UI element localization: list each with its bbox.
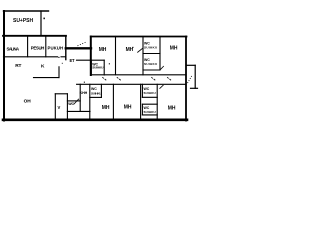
wall divider MH2 wc-stack <box>142 37 144 75</box>
svg-text:MH: MH <box>99 47 107 53</box>
svg-text:SUIHKU: SUIHKU <box>91 91 102 95</box>
door swing corridor exit <box>188 76 193 84</box>
wall sauna row bottom <box>4 56 58 58</box>
wall wc-stack2 top box left <box>141 84 143 97</box>
wall right outer <box>185 37 187 121</box>
wall entrance thick <box>66 47 91 49</box>
wall sauna row bottom stub <box>61 56 66 58</box>
wall porch tick lower <box>191 87 198 89</box>
wall wc-stack2 lower box left <box>141 104 143 115</box>
node post dot <box>43 18 45 20</box>
wall wc-stack2 top box bottom <box>142 96 157 98</box>
svg-text:RT: RT <box>15 63 21 69</box>
wall entrance recess vertical <box>65 36 67 60</box>
wall divider wc-stack MH3 <box>159 37 161 71</box>
wall porch tick upper <box>187 64 195 66</box>
wall V WC divider <box>66 94 68 120</box>
door swing corridor c <box>151 77 156 81</box>
wall corridor bottom <box>77 83 186 85</box>
wall KHH left <box>79 84 81 111</box>
wall wc box left <box>90 60 92 75</box>
svg-text:ET: ET <box>70 58 76 63</box>
wall wc box right <box>103 60 105 75</box>
svg-text:SAUNA: SAUNA <box>7 47 20 52</box>
wall wc-stack2 lower box bottom <box>142 114 157 116</box>
door swing wc-stack box2 <box>160 66 164 70</box>
door swing wc-stack <box>137 48 143 53</box>
svg-text:OH: OH <box>24 98 32 104</box>
wall bottom outer <box>3 119 187 122</box>
wall V box left <box>54 94 56 120</box>
wall annex right edge <box>40 11 42 36</box>
wall wc box4 bottom <box>90 96 102 98</box>
wall wc-stack2 lower box top <box>142 103 157 105</box>
door swing WC cluster <box>74 99 79 104</box>
node door dot kitchen <box>58 57 59 58</box>
wall WC box top <box>67 100 80 102</box>
svg-text:MH: MH <box>124 104 132 110</box>
wall divider KHH MH4 <box>89 84 91 120</box>
wall porch rail vertical <box>194 65 196 88</box>
node dot ET <box>62 63 63 64</box>
svg-text:MH: MH <box>170 45 178 51</box>
door swing corridor d <box>167 77 172 81</box>
svg-text:V: V <box>58 105 61 110</box>
svg-text:MH: MH <box>168 105 176 111</box>
door swing entrance <box>78 42 87 46</box>
svg-text:PESUH: PESUH <box>31 46 45 51</box>
wall top outer right section <box>91 36 187 38</box>
wall divider MH4 MH5 <box>112 84 114 120</box>
wall corridor top <box>91 74 186 76</box>
svg-text:SUIHKU: SUIHKU <box>144 62 158 66</box>
node dot MH1 door <box>109 63 110 64</box>
node dot corridor KHH door <box>84 82 85 83</box>
svg-text:SU+PSH: SU+PSH <box>13 18 33 24</box>
svg-text:MH: MH <box>126 47 134 53</box>
svg-text:PUKUH: PUKUH <box>48 46 64 51</box>
wall left outer <box>3 11 5 121</box>
wall kitchen counter vertical <box>58 67 60 78</box>
door swing corridor b <box>117 77 122 81</box>
wall top outer left section <box>3 35 66 37</box>
wall ET bottom and wc box top <box>77 59 105 61</box>
wall wc box4 right <box>100 84 102 97</box>
wall divider wc-stack2 MH6 <box>156 84 158 120</box>
wall V box top <box>55 93 67 95</box>
wall divider pesuh pukuh <box>45 36 47 57</box>
wall wc-stack top box bottom <box>143 53 160 55</box>
svg-text:SUIHKU: SUIHKU <box>144 46 158 50</box>
svg-text:KHH: KHH <box>80 91 88 95</box>
wall divider MH1 MH2 <box>115 37 117 75</box>
wall entry right vertical <box>90 37 92 76</box>
node dot wc-stack door <box>132 47 133 48</box>
svg-text:WC: WC <box>68 102 74 106</box>
svg-text:MH: MH <box>102 105 110 111</box>
svg-text:SUIHKU: SUIHKU <box>92 66 104 70</box>
svg-text:SUIHKU: SUIHKU <box>144 110 157 114</box>
door swing corridor a <box>102 77 107 81</box>
door swing wc-stack2 <box>160 85 164 89</box>
wall wc-stack lower box bottom <box>143 69 160 71</box>
wall cluster bottom <box>67 110 90 112</box>
svg-text:SUIHKU: SUIHKU <box>144 91 157 95</box>
wall divider sauna pesuh <box>27 36 29 57</box>
wire top line of annex room <box>4 10 49 12</box>
wall divider MH5 wc-stack2 <box>140 84 142 120</box>
wall kitchen counter horizontal <box>34 77 60 79</box>
